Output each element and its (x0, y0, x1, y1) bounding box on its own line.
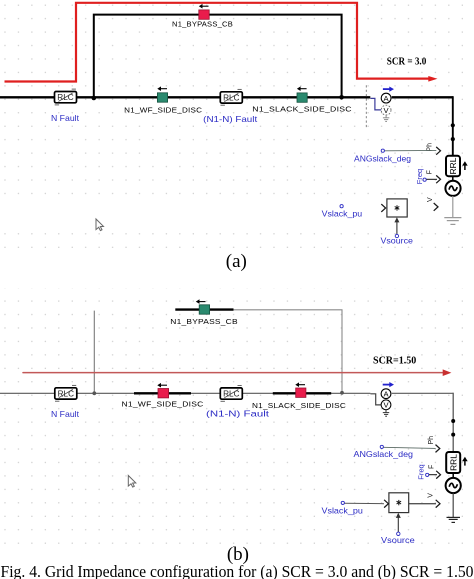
control arrow of N1_SLACK_SIDE_DISC (a) (297, 86, 307, 91)
junction node left (b) (92, 391, 96, 395)
input pin Ph (a) (427, 143, 441, 155)
source circle S (b) (446, 478, 461, 493)
dashed marquee line (a) (365, 85, 367, 127)
voltmeter V (a) (381, 105, 391, 115)
red highlighted bypass current path with arrow (a) (5, 3, 438, 82)
node dot upper on source feeder (a) (451, 123, 455, 127)
node dot upper on source feeder (b) (451, 419, 455, 423)
Vsource input arrow (a) (394, 217, 399, 237)
wire: main bus left part (a) (0, 96, 370, 98)
breaker N1_WF_SIDE_DISC (red=open) (b) (158, 389, 169, 398)
wire source to ground (a) (452, 196, 454, 217)
node circle Vslack_pu (b) (341, 501, 344, 504)
ammeter A (b) (381, 389, 391, 399)
breaker N1_BYPASS_CB (green) (b) (199, 305, 209, 314)
source circle S (a) (445, 181, 460, 196)
signal wire multiplier to V (b) (409, 503, 436, 505)
fault branch box RLC "(N1-N) Fault" (b) (220, 386, 242, 402)
node dot lower on source feeder (b) (451, 433, 455, 437)
svg-text:N1_BYPASS_CB: N1_BYPASS_CB (172, 20, 233, 29)
input chevron of multiplier box (a) (381, 204, 385, 212)
svg-text:SCR = 3.0: SCR = 3.0 (387, 56, 427, 67)
input pin V (a) (427, 197, 438, 211)
breaker N1_SLACK_SIDE_DISC (red=open) (b) (296, 388, 306, 397)
svg-text:ANGslack_deg: ANGslack_deg (354, 449, 414, 459)
ammeter A (a) (381, 93, 391, 103)
blue flow arrow above ammeter (b) (383, 382, 394, 387)
fault branch box RLC "(N1-N) Fault" (a) (220, 89, 242, 105)
blue flow arrow above ammeter (a) (383, 87, 394, 92)
node dot lower on source feeder (a) (451, 137, 455, 141)
svg-text:N1_SLACK_SIDE_DISC: N1_SLACK_SIDE_DISC (252, 105, 352, 114)
svg-text:(N1-N) Fault: (N1-N) Fault (206, 409, 270, 419)
svg-text:Vslack_pu: Vslack_pu (322, 506, 364, 516)
white band without dots in section a (0, 198, 474, 231)
thick terminal wires of N1_WF_SIDE_DISC (b) (134, 392, 191, 394)
svg-text:V: V (428, 493, 435, 498)
svg-text:RRL: RRL (448, 454, 458, 471)
chevron of V input (b) (436, 500, 440, 508)
source impedance box RRL (b) (446, 452, 460, 473)
svg-text:Vsource: Vsource (381, 236, 414, 246)
control arrow of N1_WF_SIDE_DISC (a) (157, 86, 167, 91)
wire: vertical drop to source (b) (452, 393, 454, 453)
svg-text:N1_BYPASS_CB: N1_BYPASS_CB (170, 317, 238, 326)
svg-text:Freq: Freq (415, 169, 424, 184)
breaker N1_SLACK_SIDE_DISC (green) (a) (297, 93, 307, 102)
node circle ANGslack_deg (b) (380, 445, 383, 448)
breaker N1_WF_SIDE_DISC (green) (a) (157, 93, 167, 102)
node circle ANGslack_deg (a) (381, 149, 384, 152)
thick terminal wires of N1_BYPASS_CB (b) (175, 308, 233, 310)
wire: main bus right part (a) (392, 96, 453, 98)
voltmeter V (b) (381, 400, 391, 410)
svg-text:N1_SLACK_SIDE_DISC: N1_SLACK_SIDE_DISC (252, 401, 346, 410)
multiplier box (b) (389, 493, 409, 513)
wire source to ground (b) (452, 493, 454, 517)
signal wire Vslack_pu to multiplier (b) (345, 502, 385, 505)
svg-text:(N1-N) Fault: (N1-N) Fault (203, 114, 258, 124)
source impedance box RRL (a) (446, 156, 460, 176)
up arrow beside RRL (b) (462, 457, 468, 466)
input pin F with Freq label (a) (415, 169, 441, 184)
junction node right (a) (339, 95, 344, 100)
svg-text:SCR=1.50: SCR=1.50 (373, 355, 416, 366)
svg-text:V: V (427, 197, 434, 202)
control arrow of N1_WF_SIDE_DISC (b) (157, 383, 167, 388)
mouse cursor (b) (128, 476, 136, 488)
svg-text:RRL: RRL (448, 157, 458, 174)
svg-text:N Fault: N Fault (51, 409, 80, 419)
svg-text:N Fault: N Fault (51, 113, 80, 123)
svg-text:ANGslack_deg: ANGslack_deg (354, 154, 411, 164)
input chevron of multiplier box (b) (384, 500, 388, 508)
breaker N1_BYPASS_CB (closed=red) (a) (199, 10, 209, 19)
svg-text:F: F (426, 170, 433, 174)
signal wire ANGslack_deg to Ph (a) (384, 149, 436, 151)
thick terminal wires of N1_SLACK_SIDE_DISC (b) (273, 392, 331, 394)
svg-text:Vsource: Vsource (381, 535, 415, 545)
up arrow beside RRL (a) (462, 161, 468, 170)
red through-impedance current path with arrow (b) (23, 369, 451, 376)
signal wire ANGslack_deg to Ph (b) (384, 447, 436, 448)
wire: vertical drop to source (a) (452, 96, 454, 157)
Vsource input arrow (b) (396, 513, 401, 536)
junction node right (b) (340, 391, 344, 395)
control arrow of N1_BYPASS_CB (b) (196, 299, 206, 304)
multiplier box (a) (387, 199, 407, 217)
svg-text:Ph: Ph (428, 436, 435, 445)
wire: main bus thin right (b) (392, 392, 453, 394)
wire: bypass branch rectangle (a) (94, 15, 342, 97)
wire: bypass thin top and right side (b) (234, 310, 343, 393)
ground symbol (a) (444, 218, 461, 225)
junction node left (a) (92, 96, 97, 101)
wire stub RRL to source circle (a) (452, 176, 454, 181)
grid dots section a (0, 0, 474, 251)
input pin Ph (b) (428, 436, 440, 453)
small ground under voltmeter (b) (383, 410, 389, 417)
voltmeter bracket wire (b) (370, 394, 381, 405)
voltmeter bracket wire (a) (370, 98, 381, 110)
ground symbol (b) (447, 517, 461, 522)
control arrow of N1_SLACK_SIDE_DISC (b) (295, 382, 305, 387)
svg-text:N1_WF_SIDE_DISC: N1_WF_SIDE_DISC (124, 105, 202, 114)
mouse cursor (a) (96, 219, 104, 231)
grid dots section b (0, 288, 474, 546)
wire stub RRL to source circle (b) (452, 473, 454, 478)
input pin F with Freq label (b) (416, 464, 440, 479)
wire: bypass left vertical stub (b) (93, 311, 95, 394)
svg-text:Freq: Freq (416, 464, 425, 479)
small ground under voltmeter (a) (383, 115, 389, 121)
control arrow of N1_BYPASS_CB (a) (199, 4, 209, 9)
node circle Vslack_pu (a) (340, 205, 343, 208)
fault branch box RLC "N Fault" (b) (55, 385, 77, 401)
svg-text:F: F (429, 465, 436, 469)
wire: main bus thin left (b) (0, 392, 370, 394)
svg-text:(a): (a) (226, 251, 247, 272)
input pin V (b) (428, 493, 435, 498)
svg-text:Vslack_pu: Vslack_pu (322, 209, 363, 219)
fault branch box RLC "N Fault" (a) (55, 89, 77, 105)
svg-text:Fig. 4. Grid Impedance configu: Fig. 4. Grid Impedance configuration for… (1, 562, 474, 579)
svg-text:N1_WF_SIDE_DISC: N1_WF_SIDE_DISC (122, 400, 204, 409)
